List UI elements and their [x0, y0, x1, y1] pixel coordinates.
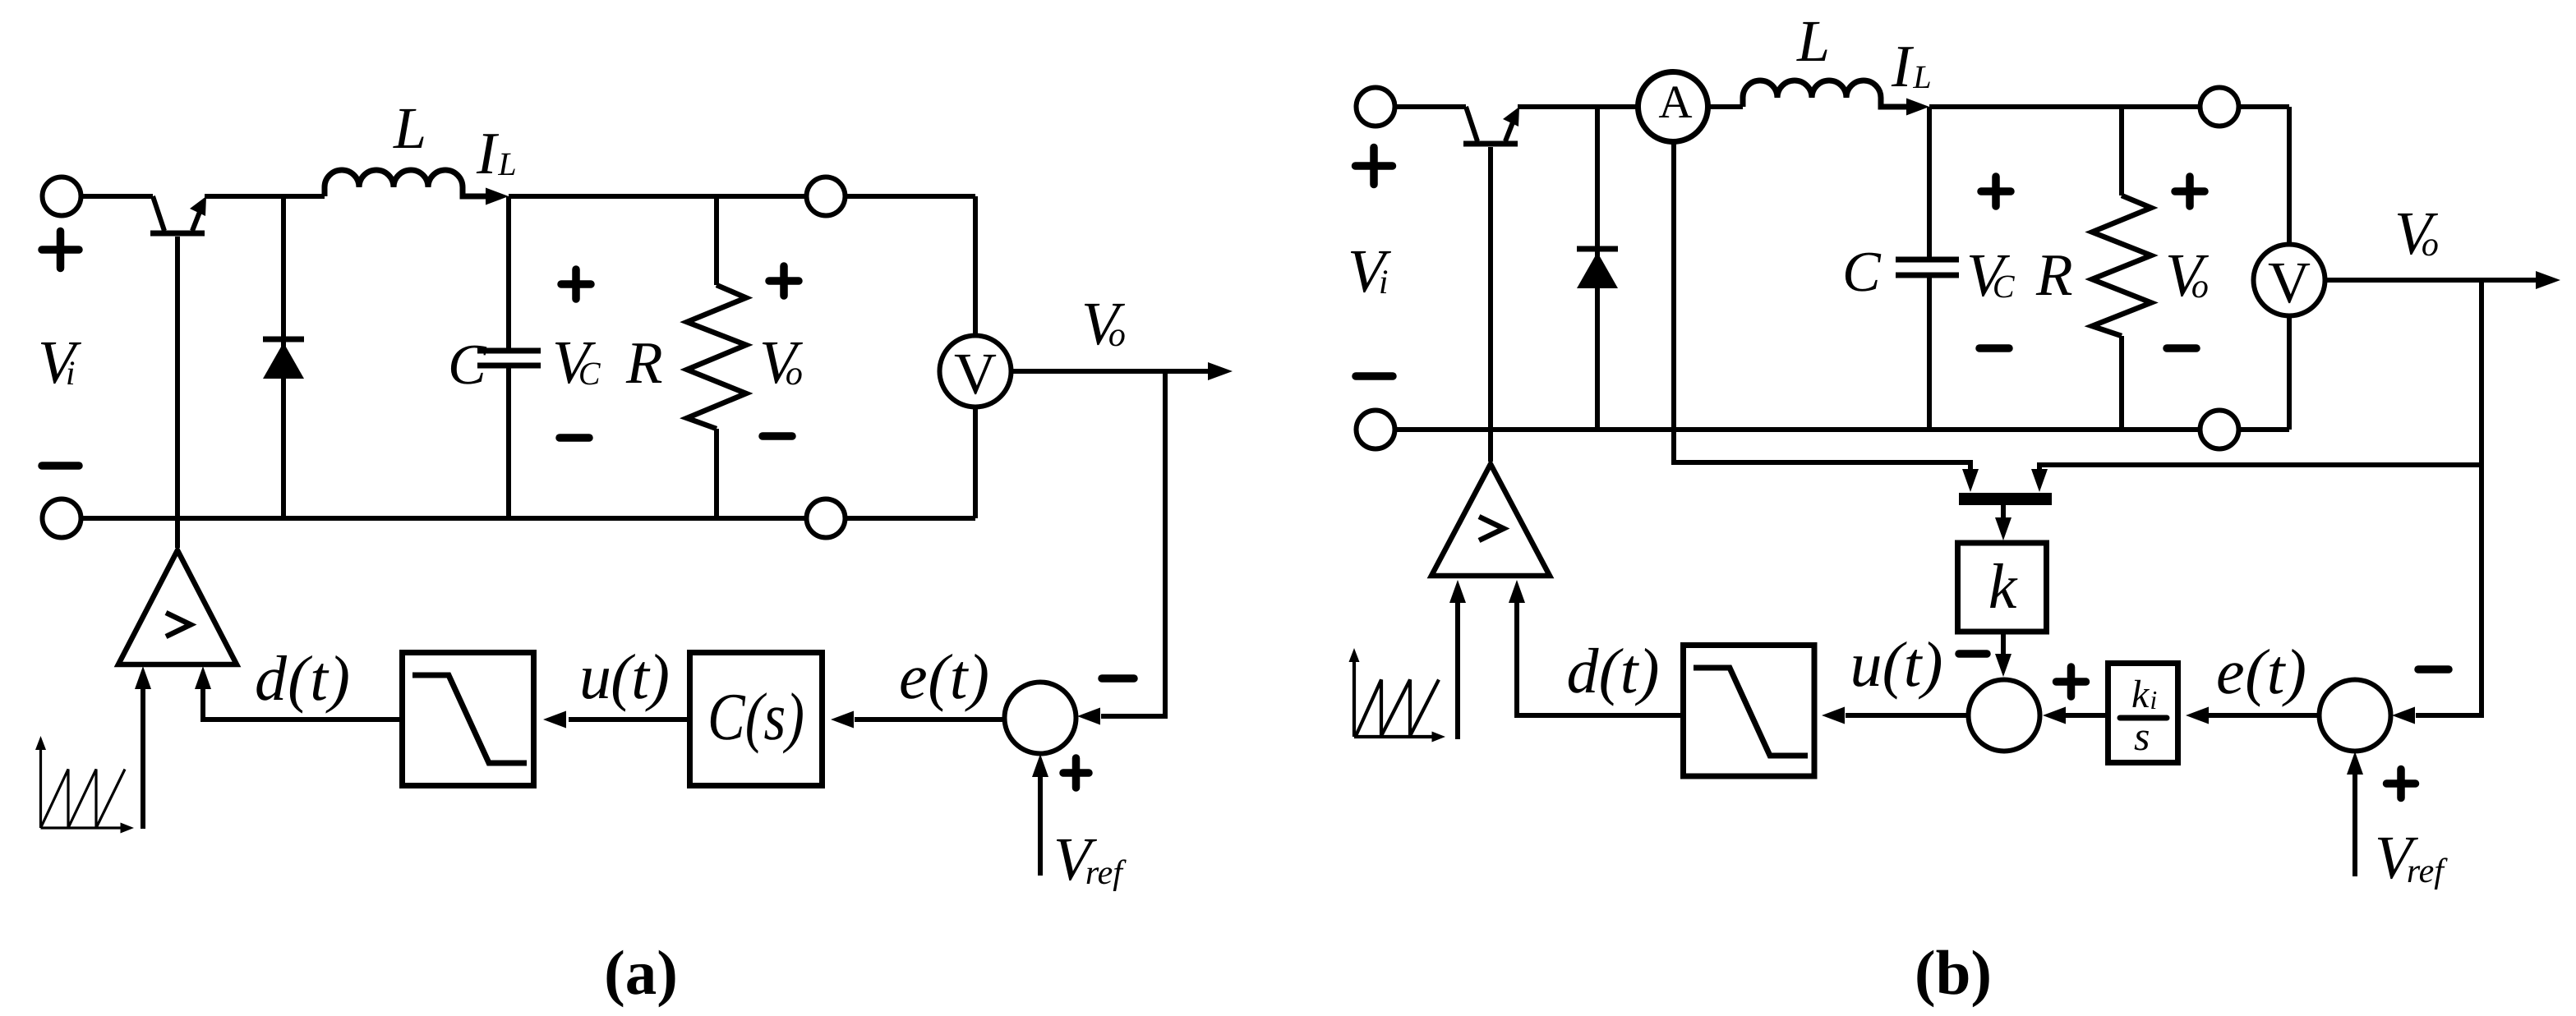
capacitor C branch upper wire — [506, 196, 511, 348]
wire: Vo output line — [2325, 278, 2537, 283]
minus sign of Vo — [763, 432, 792, 440]
ammeter A circle — [1638, 72, 1708, 142]
output terminal circle bottom — [807, 499, 846, 538]
arrowhead into summing node from right — [1077, 708, 1100, 725]
svg-text:d(t): d(t) — [255, 642, 350, 714]
capacitor C branch lower wire — [1927, 278, 1932, 430]
arrow from multiplier to k block — [2001, 505, 2006, 519]
wire: bottom rail — [1376, 427, 2289, 432]
arrowhead d(t) into comparator — [195, 666, 211, 689]
sawtooth axis horizontal — [1354, 735, 1434, 738]
capacitor C bottom plate — [1896, 273, 1959, 278]
minus sign of Vo — [2167, 344, 2196, 352]
multiplier bar — [1959, 493, 2052, 505]
sawtooth axis vertical arrowhead — [1349, 648, 1360, 662]
arrowhead into summing node from k — [1995, 654, 2011, 677]
wire: top rail from transistor to ammeter — [1518, 104, 1639, 109]
capacitor C bottom plate — [477, 363, 541, 369]
wire: e(t) from summing node to C(s) — [855, 717, 1004, 722]
sawtooth axis vertical arrowhead — [35, 736, 46, 750]
minus sign at left summing node — [1959, 650, 1987, 658]
minus sign at input — [42, 462, 79, 470]
Vo output arrowhead — [2536, 271, 2560, 289]
resistor R upper wire — [714, 196, 719, 285]
Vref input arrow line — [1038, 777, 1043, 876]
arrow from k block to summing node — [2001, 632, 2006, 655]
arrowhead d(t) into comparator — [1509, 580, 1525, 603]
arrowhead into left summing node — [2043, 707, 2066, 724]
capacitor C top plate — [1896, 257, 1959, 263]
plus sign at input — [42, 232, 79, 269]
plus sign above ki/s output — [2057, 667, 2086, 696]
transistor Q2 emitter lead — [1505, 118, 1514, 141]
diode D1 triangle — [263, 342, 304, 379]
ammeter sense line down and right to multiplier — [1674, 141, 1970, 472]
inductor L coil — [1743, 80, 1909, 107]
capacitor C branch lower wire — [506, 368, 511, 518]
wire: e(t) from right summing node to ki/s — [2209, 713, 2319, 718]
Vref input arrow line — [2353, 775, 2357, 876]
transistor Q1 collector lead — [153, 196, 164, 231]
minus sign at input — [1356, 372, 1393, 380]
comparator left input arrowhead — [135, 666, 151, 689]
svg-text:C: C — [1842, 241, 1882, 304]
wire: d(t) from limiter to comparator — [1517, 603, 1680, 715]
input terminal circle top — [43, 177, 81, 216]
comparator left input arrowhead — [1449, 580, 1466, 603]
arrow from ki/s to left summing node — [2066, 713, 2105, 718]
arrowhead into k block — [1995, 517, 2011, 540]
comparator greater-than symbol — [1479, 517, 1504, 540]
controller block C(s) box — [690, 653, 823, 786]
Vo output arrowhead — [1208, 362, 1233, 380]
svg-text:V: V — [954, 341, 997, 407]
svg-text:L: L — [393, 95, 426, 161]
svg-text:(b): (b) — [1915, 937, 1992, 1008]
comparator triangle — [118, 550, 237, 664]
wire: right branch down through V meter — [2287, 107, 2292, 430]
plus sign of VC — [561, 269, 591, 299]
svg-text:u(t): u(t) — [1850, 628, 1943, 700]
minus sign at summing node — [1102, 674, 1134, 683]
right summing node circle — [2320, 680, 2391, 752]
transistor Q1 emitter lead — [192, 208, 201, 231]
comparator left input line — [141, 688, 145, 829]
diode D2 cathode bar — [1577, 246, 1618, 252]
arrowhead into C(s) box — [831, 711, 854, 729]
resistor R zigzag — [2092, 195, 2151, 336]
comparator greater-than symbol — [166, 613, 191, 637]
wire: ammeter to inductor — [1707, 104, 1743, 109]
ammeter sense arrowhead into multiplier — [1962, 469, 1979, 492]
summing node circle — [1005, 683, 1076, 754]
sawtooth axis vertical — [1353, 657, 1356, 737]
input terminal circle bottom — [1357, 411, 1395, 449]
diode D2 triangle — [1577, 252, 1618, 288]
left summing node circle — [1969, 680, 2040, 752]
capacitor C top plate — [477, 348, 541, 354]
svg-text:u(t): u(t) — [579, 641, 670, 712]
svg-text:e(t): e(t) — [899, 641, 989, 712]
comparator triangle — [1431, 464, 1550, 576]
arrowhead into right summing node — [2392, 707, 2415, 724]
wire: u(t) from C(s) to limiter — [569, 717, 687, 722]
wire: top rail from input terminal to transistor — [1376, 104, 1466, 109]
wire: top rail from inductor to right corner — [509, 194, 975, 199]
svg-text:C(s): C(s) — [707, 679, 804, 754]
limiter (saturation) box — [403, 653, 534, 786]
sawtooth axis horizontal — [41, 826, 123, 829]
plus sign of VC — [1981, 177, 2011, 206]
inductor current arrowhead IL — [486, 188, 509, 205]
diode D1 cathode bar — [263, 337, 304, 342]
voltmeter V circle — [940, 336, 1012, 407]
sawtooth ramps — [1356, 680, 1439, 737]
svg-text:L: L — [1796, 8, 1830, 74]
wire: u(t) from summing node to limiter — [1846, 713, 1968, 718]
diode D1 branch wire — [281, 196, 286, 518]
wire: feedback drop from Vo line to right summing node — [2416, 280, 2482, 715]
wire: d(t) from limiter to comparator — [203, 688, 399, 719]
resistor R zigzag — [687, 285, 746, 429]
limiter saturation curve — [1694, 668, 1808, 756]
resistor R lower wire — [2119, 336, 2124, 430]
input terminal circle top — [1357, 88, 1395, 126]
svg-text:s: s — [2134, 713, 2150, 759]
wire: bottom rail — [62, 516, 975, 521]
arrowhead into limiter box — [543, 711, 566, 729]
plus sign at summing node — [1063, 758, 1089, 788]
Vref arrowhead — [2347, 752, 2363, 775]
transistor Q2 collector lead — [1466, 107, 1477, 141]
sawtooth axis horizontal arrowhead — [1432, 732, 1446, 742]
output terminal circle top — [2200, 88, 2239, 126]
svg-text:A: A — [1658, 76, 1692, 128]
transistor Q2 emitter arrowhead — [1503, 107, 1519, 126]
output terminal circle top — [807, 177, 846, 216]
input terminal circle bottom — [43, 499, 81, 538]
comparator left input line — [1455, 603, 1460, 739]
plus sign of Vo — [769, 266, 799, 296]
integrator block ki/s box — [2108, 664, 2178, 763]
minus sign of VC — [1979, 344, 2009, 352]
svg-text:R: R — [625, 329, 663, 396]
plus sign of Vo — [2175, 177, 2205, 206]
gain block k box — [1958, 543, 2047, 632]
fraction bar — [2120, 715, 2167, 721]
svg-text:R: R — [2035, 241, 2073, 308]
diode D2 branch wire — [1595, 107, 1600, 430]
minus sign at right summing node — [2418, 665, 2449, 674]
arrowhead into limiter box — [1822, 707, 1845, 724]
svg-text:C: C — [448, 333, 487, 397]
wire: right branch down to V meter — [973, 196, 978, 518]
svg-text:k: k — [1988, 550, 2018, 622]
transistor Q1 base drive line down to comparator — [175, 237, 180, 548]
svg-text:d(t): d(t) — [1567, 635, 1660, 706]
limiter (saturation) box — [1684, 646, 1815, 777]
minus sign of VC — [560, 434, 589, 442]
transistor Q2 base bar — [1463, 141, 1518, 147]
wire: top rail from inductor to right corner — [1929, 104, 2289, 109]
svg-text:e(t): e(t) — [2216, 636, 2306, 707]
Vref arrowhead — [1032, 754, 1048, 777]
transistor Q1 base bar — [150, 231, 205, 237]
wire: Vo output line — [1012, 369, 1210, 374]
arrowhead into ki/s box — [2186, 707, 2209, 724]
output terminal circle bottom — [2200, 411, 2239, 449]
wire: top rail from transistor to inductor — [205, 194, 325, 199]
transistor Q2 base drive line down to comparator — [1488, 147, 1493, 462]
plus sign at input — [1356, 148, 1393, 185]
plus sign at right summing node — [2387, 770, 2416, 798]
Vo sense arrowhead into multiplier — [2031, 469, 2048, 492]
resistor R upper wire — [2119, 107, 2124, 195]
voltmeter V circle — [2254, 245, 2325, 316]
sawtooth ramps — [41, 770, 126, 829]
capacitor C branch upper wire — [1927, 107, 1932, 257]
wire: top rail from input terminal to transistor — [62, 194, 153, 199]
limiter saturation curve — [412, 675, 527, 763]
inductor current arrowhead IL — [1906, 99, 1929, 116]
wire: feedback drop from Vo line — [1101, 371, 1165, 716]
sawtooth axis horizontal arrowhead — [121, 823, 135, 834]
transistor Q1 emitter arrowhead — [190, 196, 206, 216]
svg-text:V: V — [2268, 250, 2311, 315]
inductor L coil — [325, 170, 488, 196]
resistor R lower wire — [714, 429, 719, 518]
sawtooth axis vertical — [39, 744, 42, 828]
Vo sense line from feedback drop to multiplier — [2039, 465, 2482, 472]
svg-text:(a): (a) — [604, 937, 678, 1008]
